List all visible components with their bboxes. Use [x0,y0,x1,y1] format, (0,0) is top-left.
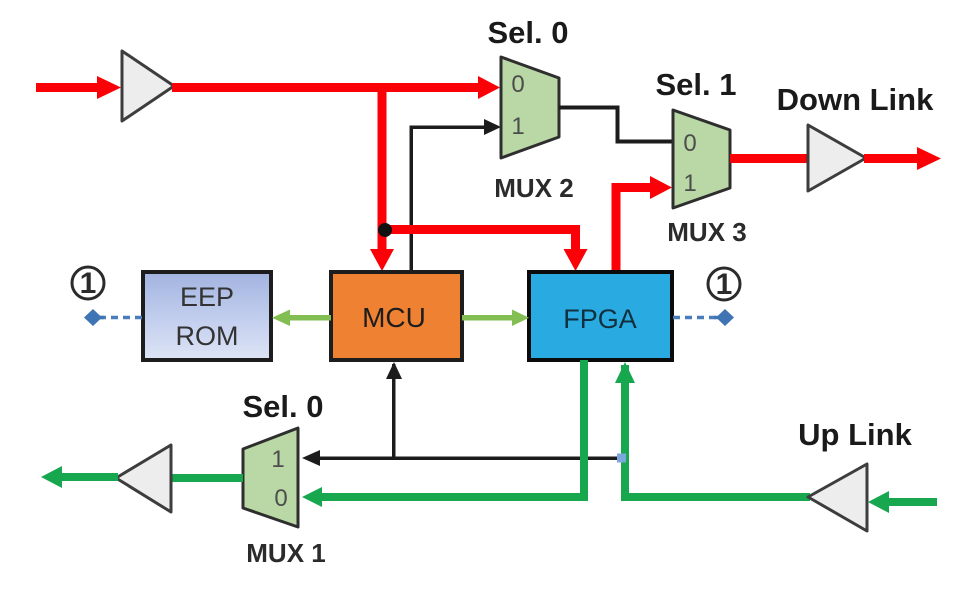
buffer B2 (Down Link driver) [808,125,866,191]
svg-text:Down Link: Down Link [777,82,934,117]
wire: black from MUX2 output to MUX3 input 0 [559,106,674,144]
svg-text:1: 1 [716,268,733,301]
node: blue connector cap on black wire at green bus [617,454,626,463]
wire: red from MUX3 output to buffer B2 [730,154,808,163]
wire: black from MCU top to MUX2 input 1 [410,119,502,273]
wire: red from FPGA top up to MUX3 input 1 [612,176,673,272]
wire: red input arrow into buffer B1 [36,76,121,99]
block EEPROM [143,272,271,360]
svg-text:EEP: EEP [180,282,234,312]
svg-text:Up Link: Up Link [798,417,912,452]
svg-text:Sel. 0: Sel. 0 [243,389,324,424]
svg-text:Sel. 1: Sel. 1 [656,67,737,102]
wire: green FPGA down to MUX1 input 0 [302,360,588,507]
svg-text:MCU: MCU [362,302,426,333]
wire: red vertical drop to MCU top [370,85,394,271]
node: circled 1 right [708,268,740,301]
svg-text:MUX 3: MUX 3 [667,217,746,247]
mux MUX1 [243,428,298,527]
wire: green Up Link input arrow [868,491,937,513]
wire: red from junction to FPGA top [382,225,588,271]
node: circled 1 left [72,267,104,300]
svg-text:Sel. 0: Sel. 0 [488,15,569,50]
svg-text:1: 1 [80,267,97,300]
wire: black MCU bottom / MUX1 input 1 tee [302,362,622,466]
svg-text:1: 1 [683,170,696,197]
buffer B3 (downstream driver, points left) [116,445,171,512]
wire: green MCU to FPGA [462,310,529,327]
block MCU [331,272,462,360]
svg-text:0: 0 [511,71,524,98]
svg-text:1: 1 [271,446,284,473]
svg-text:0: 0 [683,130,696,157]
svg-text:0: 0 [274,485,287,512]
node: junction dot on red wire [378,223,392,237]
wire: red from B1 to MUX2 input 0 [172,76,500,99]
block FPGA [529,272,672,360]
mux MUX3 [673,110,730,208]
wire: green MCU to EEPROM [272,310,331,327]
svg-text:MUX 2: MUX 2 [494,173,573,203]
svg-text:FPGA: FPGA [563,304,637,334]
wire: green output arrow bottom-left [41,466,118,488]
svg-text:1: 1 [511,113,524,140]
wire: blue dashed left to node 1 [84,309,142,326]
svg-text:ROM: ROM [176,321,239,351]
wire: green Up Link to FPGA bottom [615,362,810,501]
buffer B1 (top-left line driver) [122,51,174,121]
wire: blue dashed right to node 1 [673,309,734,326]
mux MUX2 [501,57,559,158]
wire: green MUX1 output to buffer B3 [170,474,243,482]
wire: red Down Link output arrow [864,147,941,170]
svg-text:MUX 1: MUX 1 [246,538,325,568]
buffer B4 (Up Link driver, points left) [808,464,867,531]
